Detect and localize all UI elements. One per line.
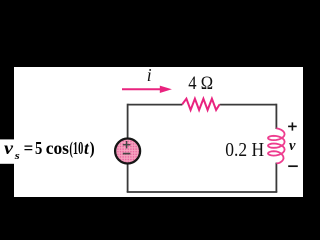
svg-text:0.2 H: 0.2 H [225,139,264,161]
wire left vertical [127,104,129,192]
svg-text:4 Ω: 4 Ω [188,73,213,94]
minus sign right [288,165,298,167]
wire top-left segment [128,104,183,106]
inductor L coil 0.2H [268,128,285,163]
resistor R 4ohm zigzag [182,99,219,110]
svg-text:v: v [289,138,296,154]
white band behind source label [0,139,15,163]
source plus sign [123,144,131,146]
wire top-right segment [220,104,277,106]
white figure panel [14,67,303,197]
svg-text:i: i [147,65,152,85]
current arrow i [122,88,161,90]
plus sign right [288,125,297,127]
wire right vertical lower [275,163,277,192]
source minus sign [123,153,131,155]
wire bottom [127,191,278,193]
voltage source VS circle [115,139,140,164]
wire right vertical upper [275,104,277,129]
